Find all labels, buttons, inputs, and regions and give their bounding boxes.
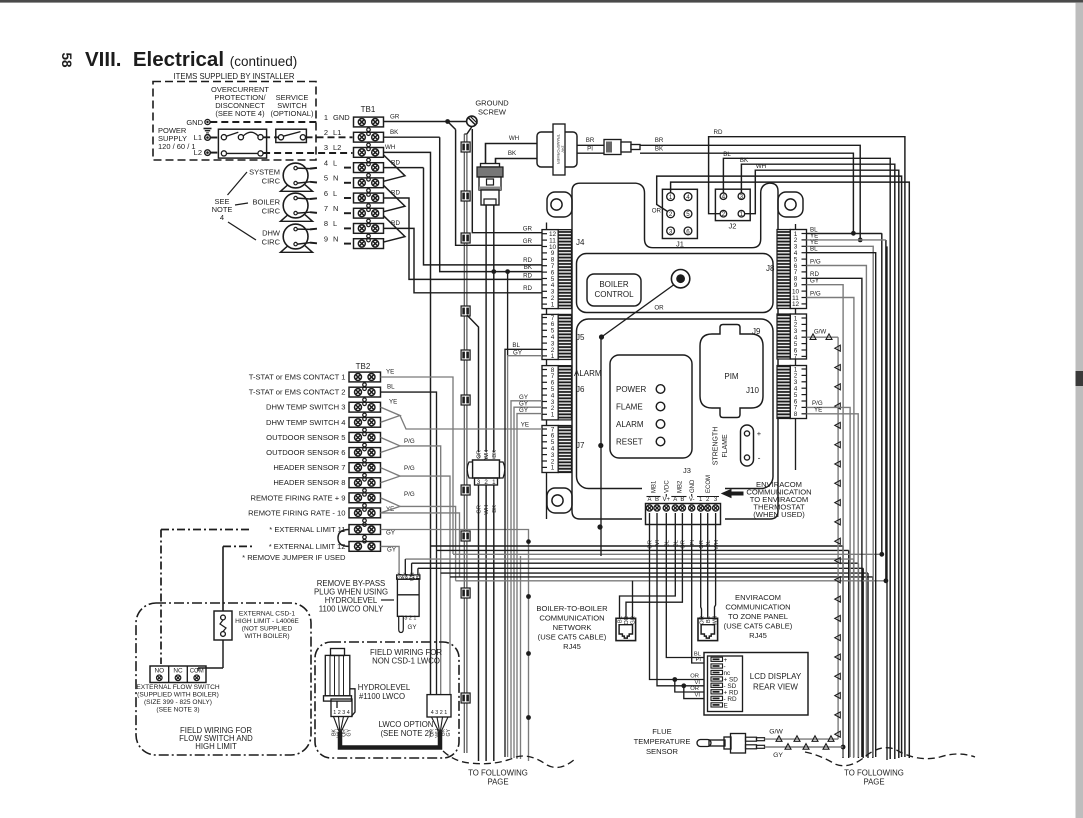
svg-text:YE: YE [389,399,397,406]
svg-text:HEADER SENSOR 8: HEADER SENSOR 8 [273,478,345,487]
svg-text:4: 4 [722,193,726,200]
svg-text:VDC: VDC [665,480,671,493]
svg-text:P/G: P/G [810,258,821,265]
svg-text:RD: RD [523,257,532,264]
svg-text:A: A [673,497,677,503]
svg-text:COM: COM [190,669,204,675]
enviracom arrow marker [722,490,743,498]
svg-text:HEADER SENSOR 7: HEADER SENSOR 7 [273,463,345,472]
junction dots on BK feed [505,269,510,274]
svg-text:1: 1 [324,113,328,122]
svg-text:L: L [333,189,337,198]
svg-text:EXTERNAL FLOW SWITCH: EXTERNAL FLOW SWITCH [136,684,220,691]
svg-text:WH: WH [714,540,720,550]
service switch optional [276,129,307,142]
svg-text:REAR VIEW: REAR VIEW [753,683,798,692]
svg-text:6: 6 [324,189,328,198]
svg-text:ALARM: ALARM [574,369,602,378]
svg-text:SENSOR: SENSOR [646,747,679,756]
wires P/G from TB2 sensor pairs [381,437,401,452]
svg-text:REMOTE FIRING RATE - 10: REMOTE FIRING RATE - 10 [248,508,345,517]
wire GR to bypass plug [467,315,479,452]
svg-text:J1: J1 [676,240,684,249]
wire YE TB2 3-4 to J7 pin7 [381,407,401,422]
jumper between TB2 11 and 12 [338,530,349,547]
wire GR drop to RJ45 jack [632,581,634,619]
wire GY external limit 12 to bypass plug [381,546,400,575]
svg-text:PAGE: PAGE [863,778,884,787]
wire vertical right bundle [886,246,888,760]
svg-text:CIRC: CIRC [262,207,281,216]
svg-text:GY: GY [408,624,417,631]
svg-text:5: 5 [324,174,328,183]
svg-text:OR: OR [699,540,705,549]
svg-text:4 3 2 1: 4 3 2 1 [401,575,415,580]
svg-text:1100 LWCO ONLY: 1100 LWCO ONLY [319,605,384,614]
svg-text:TO FOLLOWING: TO FOLLOWING [844,769,904,778]
svg-text:RESET: RESET [616,437,643,446]
svg-text:4: 4 [686,194,690,201]
svg-text:(SIZE 399 - 825 ONLY): (SIZE 399 - 825 ONLY) [144,699,212,706]
svg-text:BOILER-TO-BOILER: BOILER-TO-BOILER [536,604,608,613]
flow switch terminals NO NC COM [150,666,206,683]
svg-text:BR: BR [586,137,595,144]
connector J2 [715,189,750,220]
field wiring non CSD-1 LWCO dashed box [315,642,459,758]
svg-text:3: 3 [669,228,673,235]
svg-text:BOILER: BOILER [252,198,280,207]
svg-text:SYSTEM: SYSTEM [249,168,280,177]
svg-text:(USE CAT5 CABLE): (USE CAT5 CABLE) [538,633,607,642]
dashed supply wires L1 L2 GND [210,137,221,139]
svg-text:2: 2 [484,479,488,486]
svg-text:1: 1 [492,479,496,486]
svg-text:-: - [758,453,761,463]
hydrolevel 1100 LWCO device [331,649,345,656]
svg-text:3: 3 [477,479,481,486]
LWCO option cable [334,717,341,735]
svg-text:3: 3 [740,193,744,200]
svg-text:1: 1 [669,194,673,201]
svg-text:V+: V+ [663,497,671,503]
boiler control enclosure with mounting tabs [547,192,572,217]
svg-text:1: 1 [740,211,744,218]
svg-text:FLUE: FLUE [652,727,671,736]
svg-text:2: 2 [324,128,328,137]
svg-text:PI: PI [690,540,696,546]
svg-text:3: 3 [324,143,328,152]
svg-text:GY: GY [347,728,353,736]
wire from J1 pin1 [671,182,910,758]
svg-text:OR: OR [652,208,662,215]
control inner panels [577,254,774,313]
svg-text:LCD DISPLAY: LCD DISPLAY [750,672,802,681]
RJ45 jack boiler-to-boiler [616,618,636,640]
svg-text:WH: WH [509,135,519,142]
svg-text:V-: V- [689,497,695,503]
wire BR PI with inline connector to J8 [577,144,604,146]
svg-text:BK: BK [492,505,498,513]
svg-text:REMOTE FIRING RATE + 9: REMOTE FIRING RATE + 9 [250,493,345,502]
svg-text:J5: J5 [576,333,585,342]
svg-text:J10: J10 [746,386,759,395]
svg-text:(WHEN USED): (WHEN USED) [753,510,805,519]
svg-text:OR: OR [700,616,706,625]
wires MB2 to boiler-to-boiler jack [620,513,676,618]
pump BOILER CIRC [283,193,308,218]
svg-text:ITEMS SUPPLIED BY INSTALLER: ITEMS SUPPLIED BY INSTALLER [173,72,294,81]
svg-text:7: 7 [324,204,328,213]
svg-text:BL: BL [512,342,520,349]
svg-text:NON CSD-1 LWCO: NON CSD-1 LWCO [372,657,440,666]
connector J4 [542,230,558,309]
svg-text:WH: WH [484,505,490,515]
svg-text:RJ45: RJ45 [563,642,581,651]
svg-text:BL: BL [810,246,818,253]
svg-text:VI: VI [695,680,701,686]
svg-text:OR: OR [624,616,630,625]
svg-text:RD: RD [523,273,532,280]
svg-text:TRANSFORMER: TRANSFORMER [556,134,561,164]
junction GY flue sensor [841,745,846,750]
svg-text:L2: L2 [194,148,202,157]
svg-text:2: 2 [669,211,673,218]
connector J3 terminal strip [642,480,725,525]
LWCO connector 1-2-3-4 [331,699,352,717]
svg-text:NETWORK: NETWORK [553,623,592,632]
svg-text:L1: L1 [194,133,202,142]
svg-text:FLAME: FLAME [722,434,729,458]
svg-text:1: 1 [551,465,555,472]
svg-text:GND: GND [333,113,350,122]
svg-text:BL: BL [387,384,395,391]
external CSD-1 high limit L4006E [214,611,232,640]
svg-text:VI: VI [655,540,661,546]
svg-text:RD: RD [523,285,532,292]
svg-text:GROUND: GROUND [475,99,509,108]
svg-text:4 3 2 1: 4 3 2 1 [431,710,448,716]
svg-text:CIRC: CIRC [262,238,281,247]
svg-text:B: B [655,497,659,503]
svg-text:12: 12 [792,301,800,308]
svg-text:NC: NC [173,668,183,675]
svg-text:8: 8 [324,219,328,228]
svg-text:T-STAT or EMS CONTACT 1: T-STAT or EMS CONTACT 1 [249,373,346,382]
svg-text:8: 8 [794,411,798,418]
svg-text:G/W: G/W [769,729,783,736]
module PIM [700,325,763,418]
svg-text:OUTDOOR SENSOR 6: OUTDOOR SENSOR 6 [266,448,345,457]
svg-text:L: L [333,158,337,167]
svg-text:HIGH LIMIT - L4006E: HIGH LIMIT - L4006E [235,618,299,625]
dashed field wires to flow switch and high limit [161,529,252,531]
svg-text:1: 1 [551,301,555,308]
svg-text:ECOM: ECOM [706,475,712,493]
overcurrent protection disconnect switch [218,129,266,158]
svg-text:BK: BK [508,150,517,157]
svg-text:GND: GND [186,118,203,127]
svg-text:WH: WH [756,163,766,170]
svg-text:GND: GND [690,479,696,493]
svg-text:GY: GY [810,278,819,285]
svg-text:N: N [333,204,338,213]
svg-text:ALARM: ALARM [616,420,644,429]
svg-text:6: 6 [686,228,690,235]
connector J7 [542,426,558,473]
svg-text:L: L [333,219,337,228]
svg-text:E: E [724,702,728,709]
LWCO connector 4-3-2-1 [427,695,451,717]
svg-text:J2: J2 [729,222,737,231]
svg-text:MB1: MB1 [651,480,657,493]
svg-text:GY: GY [446,728,452,736]
svg-text:LWCO OPTION: LWCO OPTION [379,720,434,729]
svg-text:WH: WH [385,144,395,151]
svg-text:1: 1 [551,412,555,419]
svg-text:TO FOLLOWING: TO FOLLOWING [468,769,528,778]
LED panel POWER FLAME ALARM RESET [610,355,692,458]
svg-text:G/W: G/W [814,329,827,336]
svg-text:TB1: TB1 [361,105,376,114]
svg-text:GY: GY [387,547,396,554]
svg-text:OR: OR [681,540,687,549]
svg-text:BK: BK [655,146,664,153]
svg-text:GR: GR [390,114,400,121]
svg-text:1 2 3 4: 1 2 3 4 [333,710,350,716]
svg-text:P/G: P/G [810,290,821,297]
buzzer OR with wire down [671,270,689,288]
svg-text:* EXTERNAL LIMIT 11: * EXTERNAL LIMIT 11 [269,525,345,534]
field wiring flow switch high limit dashed box [136,603,311,755]
svg-text:GR: GR [523,238,533,245]
svg-text:OR: OR [648,540,654,549]
svg-text:CIRC: CIRC [262,177,281,186]
wire WH TB1-3 down to LWCO connector [384,152,431,694]
connector J8 [777,230,790,309]
svg-text:YE: YE [521,422,529,429]
wires YE BL from TB2 1-2 [381,377,454,554]
svg-text:ENVIRACOM: ENVIRACOM [735,593,781,602]
svg-text:OR: OR [690,674,699,680]
svg-text:OUTDOOR SENSOR 5: OUTDOOR SENSOR 5 [266,433,345,442]
svg-text:(SEE NOTE 3): (SEE NOTE 3) [156,707,199,714]
svg-text:(NOT SUPPLIED: (NOT SUPPLIED [242,626,293,633]
svg-text:PIM: PIM [724,372,739,381]
svg-text:BL: BL [665,539,671,547]
svg-text:RJ45: RJ45 [749,631,767,640]
svg-text:B: B [680,497,684,503]
svg-text:PAGE: PAGE [487,778,508,787]
svg-text:TEMPERATURE: TEMPERATURE [634,737,691,746]
horizontal wire bundle [431,545,844,547]
wires ECOM to zone panel jack [700,513,703,618]
svg-text:YE: YE [386,369,394,376]
svg-text:BL: BL [618,615,624,623]
svg-text:PI: PI [587,146,593,153]
svg-text:DHW TEMP SWITCH 3: DHW TEMP SWITCH 3 [266,403,345,412]
svg-text:SCREW: SCREW [478,108,507,117]
svg-text:EXTERNAL CSD-1: EXTERNAL CSD-1 [239,611,296,618]
svg-text:TB2: TB2 [356,362,371,371]
svg-text:GY: GY [773,752,783,759]
connector J9 [777,314,790,359]
boiler control label box [587,274,641,306]
svg-text:L1: L1 [333,128,341,137]
svg-text:PI: PI [696,657,702,663]
svg-text:GY: GY [386,530,395,537]
svg-text:COMMUNICATION: COMMUNICATION [539,614,604,623]
svg-text:T-STAT or EMS CONTACT 2: T-STAT or EMS CONTACT 2 [249,388,346,397]
svg-text:(SEE NOTE 4): (SEE NOTE 4) [215,109,265,118]
svg-text:HYDROLEVEL: HYDROLEVEL [358,683,411,692]
svg-text:J3: J3 [683,466,691,475]
svg-text:NO: NO [155,668,165,675]
svg-text:L2: L2 [333,143,341,152]
svg-text:WITH BOILER): WITH BOILER) [244,633,289,640]
TB1 neutral chain chevron wires [384,155,406,181]
svg-text:P/G: P/G [404,438,415,445]
svg-text:J7: J7 [576,441,585,450]
svg-text:HIGH LIMIT: HIGH LIMIT [195,742,237,751]
svg-text:#1100 LWCO: #1100 LWCO [359,692,405,701]
connector J10 [777,366,790,419]
svg-text:A: A [647,497,651,503]
svg-text:(SEE NOTE 2): (SEE NOTE 2) [380,729,432,738]
svg-text:BK: BK [740,157,749,164]
svg-text:N: N [333,234,338,243]
svg-text:FLAME: FLAME [616,402,643,411]
svg-text:GR: GR [477,505,483,514]
svg-text:DHW: DHW [262,229,281,238]
svg-text:N: N [333,174,338,183]
svg-text:58: 58 [59,52,74,68]
pump DHW CIRC [283,224,308,249]
RJ45 jack enviracom zone panel [698,618,718,640]
LCD display rear view [704,653,808,716]
connector J1 [662,189,697,238]
svg-text:GR: GR [523,225,533,232]
svg-text:J6: J6 [576,385,585,394]
svg-text:POWER: POWER [616,385,646,394]
svg-text:2: 2 [722,211,726,218]
svg-text:(SUPPLIED WITH BOILER): (SUPPLIED WITH BOILER) [137,692,219,699]
svg-text:(OPTIONAL): (OPTIONAL) [271,109,314,118]
transformer 24V [537,132,577,167]
svg-text:COMMUNICATION: COMMUNICATION [725,603,790,612]
svg-text:BL: BL [674,539,680,547]
wires WH BK going down from plug [485,205,487,452]
svg-text:OR: OR [654,305,664,312]
svg-text:TO ZONE PANEL: TO ZONE PANEL [728,612,788,621]
svg-text:* EXTERNAL LIMIT 12: * EXTERNAL LIMIT 12 [269,542,346,551]
svg-text:STRENGTH: STRENGTH [713,427,720,466]
svg-text:RD: RD [714,129,723,136]
wire GY external limit 11 [381,530,529,762]
svg-text:BL: BL [416,572,422,578]
svg-text:4: 4 [324,158,328,167]
igniter 24V plug connector [481,164,500,168]
wires MB1 VDC to LCD display [666,513,704,658]
svg-text:120 / 60 / 1: 120 / 60 / 1 [158,142,196,151]
svg-text:BOILER: BOILER [599,280,629,289]
svg-text:(USE CAT5 CABLE): (USE CAT5 CABLE) [724,622,793,631]
svg-text:BL: BL [706,615,712,623]
svg-text:4: 4 [220,213,224,222]
svg-text:YE: YE [814,406,822,413]
svg-text:9: 9 [324,234,328,243]
svg-text:* REMOVE JUMPER IF USED: * REMOVE JUMPER IF USED [242,553,346,562]
svg-text:J4: J4 [576,238,585,247]
svg-text:BL: BL [706,539,712,547]
marked ground cable with band markers [467,127,472,134]
svg-text:DHW TEMP SWITCH 4: DHW TEMP SWITCH 4 [266,418,345,427]
svg-text:BK: BK [390,129,399,136]
connector J6 [542,366,558,420]
svg-text:VI: VI [695,693,701,699]
svg-text:J8: J8 [766,264,775,273]
torn edge continuation marks [443,751,575,767]
svg-text:P/G: P/G [404,491,415,498]
wires WH BK plug to transformer [486,144,538,164]
svg-text:MB2: MB2 [678,480,684,493]
svg-text:CONTROL: CONTROL [594,290,634,299]
svg-text:1: 1 [551,353,555,360]
pump SYSTEM CIRC [283,163,308,188]
wire YE TB2 10 [381,513,460,577]
connector J5 [542,314,558,359]
svg-text:BK: BK [524,264,533,271]
svg-text:5: 5 [686,211,690,218]
svg-text:BL: BL [723,151,731,158]
svg-text:+: + [757,429,762,438]
svg-text:OR: OR [690,686,699,692]
svg-text:BR: BR [655,137,664,144]
bypass plug riser wires [404,559,406,575]
svg-text:P/G: P/G [404,465,415,472]
